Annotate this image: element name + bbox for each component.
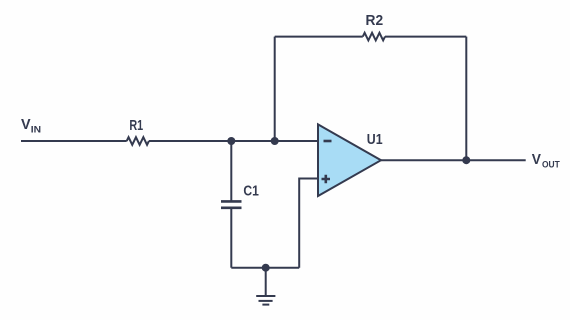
wire R1 to inverting input [149,140,317,142]
wire feedback top left [275,36,363,38]
capacitor C1 [221,201,242,207]
wire feedback left vertical [274,37,276,141]
pin label plus (non-inverting input) [322,175,331,183]
svg-text:OUT: OUT [542,159,560,169]
svg-text:U1: U1 [367,132,383,148]
op-amp U1 [318,124,381,196]
label VOUT [532,152,560,169]
junction ground node [262,264,270,272]
pin label minus (inverting input) [324,140,332,143]
wire output [381,159,526,161]
wire input from VIN to R1 [21,140,127,142]
resistor R2 [363,33,385,41]
label VIN [21,117,42,135]
wire non-inverting input [299,179,318,268]
wire bottom rail [231,267,299,269]
wire C1 branch vertical [230,141,232,201]
svg-text:IN: IN [31,125,42,135]
svg-text:R2: R2 [366,13,384,29]
resistor R1 [127,137,149,145]
svg-text:R1: R1 [129,118,143,134]
svg-text:V: V [532,152,542,168]
wire feedback right vertical [465,37,467,161]
junction node A (R1/C1) [227,137,235,145]
junction output node [462,156,470,164]
wire C1 to bottom rail [230,208,232,268]
junction node B (feedback/inverting input) [271,137,279,145]
svg-text:V: V [21,117,31,133]
wire feedback top right [385,36,466,38]
ground [256,268,275,305]
svg-text:C1: C1 [243,183,259,199]
